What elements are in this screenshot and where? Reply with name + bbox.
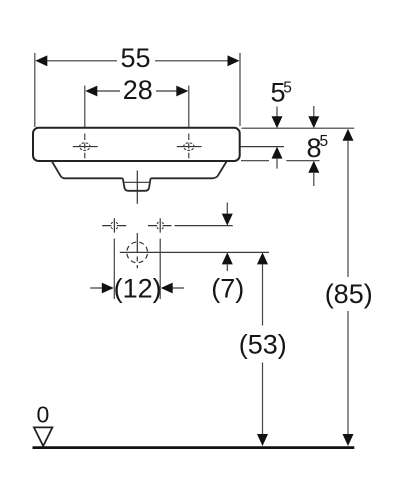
left tap hole axis (horizontal) (73, 146, 98, 148)
datum triangle (34, 427, 53, 446)
bowl underside outline (52, 162, 227, 179)
dimension 12 left arrow (pointing right) (90, 287, 102, 289)
dimension 28 right extension line (188, 86, 190, 128)
svg-text:(12): (12) (114, 274, 162, 304)
svg-text:5: 5 (320, 133, 329, 150)
mounting bolt hole left: dashed horizontal (102, 225, 126, 227)
svg-text:55: 55 (120, 43, 150, 73)
drain hole dashed circle (127, 242, 148, 263)
dimension 53 line lower (262, 363, 264, 436)
mounting bolt hole right: vertical line (159, 218, 161, 232)
washbasin rim outline (33, 128, 240, 161)
svg-text:(7): (7) (211, 274, 244, 304)
svg-text:(85): (85) (325, 279, 373, 309)
drain centerline middle (136, 233, 138, 252)
right tap hole dashed circle (184, 143, 194, 151)
tap hole level reference line (241, 146, 285, 148)
mounting bolt hole right: dashed horizontal (148, 225, 172, 227)
dimension 28 left extension line (84, 86, 86, 128)
left tap hole dashed circle (80, 143, 90, 151)
drain trap inner line (124, 181, 150, 183)
drain level horizontal line (120, 251, 269, 253)
dimension 55 right arrowhead (228, 55, 240, 66)
dimension 5.5 upper arrow (down) (276, 107, 278, 118)
rim bottom reference line (241, 160, 269, 162)
drain trap box (123, 178, 151, 191)
dimension 85 line upper (343, 129, 354, 141)
bolt hole level line to dimension 7 (175, 225, 233, 227)
dimension 12 right arrow (pointing left) (161, 283, 173, 294)
dimension 55 left arrowhead (35, 55, 47, 66)
mounting bolt hole left: dashed circle (111, 222, 118, 229)
svg-text:5: 5 (283, 80, 292, 97)
dimension 28 left arrowhead (85, 86, 97, 97)
svg-text:(53): (53) (239, 330, 287, 360)
dimension 28 right arrowhead (176, 86, 188, 97)
left tap hole centerline (vertical dashed) (84, 134, 86, 159)
dimension 28 line (94, 90, 120, 92)
svg-text:0: 0 (37, 402, 50, 428)
drain centerline lower dashes (136, 257, 138, 269)
dimension 12 left extension line (113, 239, 115, 300)
right tap hole axis (horizontal) (177, 146, 202, 148)
floor line (33, 446, 355, 449)
dimension 8.5 upper arrow (down) (313, 106, 315, 117)
dimension 7 upper arrow (down) (226, 203, 228, 215)
dimension 7 lower arrow (up) (222, 252, 233, 264)
dimension 55 left extension line (34, 53, 36, 127)
dimension 85 line lower (347, 311, 349, 435)
drain centerline upper (136, 171, 138, 204)
right tap hole centerline (vertical dashed) (188, 134, 190, 159)
svg-text:28: 28 (123, 75, 153, 105)
dimension 55 right extension line (239, 53, 241, 126)
dimension 5.5 lower arrow (up) (272, 147, 283, 159)
dimension 12 right extension line (159, 239, 161, 300)
mounting bolt hole right: dashed circle (157, 222, 164, 229)
dimension 8.5 lower arrow (up) (308, 161, 319, 173)
rim top reference line (for 5.5 and 85) (242, 127, 355, 129)
mounting bolt hole left: vertical line (113, 218, 115, 232)
dimension 53 line upper (257, 252, 268, 264)
dimension 55 line (44, 60, 117, 62)
